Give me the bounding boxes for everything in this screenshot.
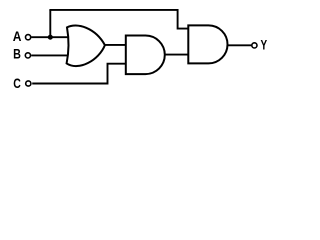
terminal Y (252, 43, 257, 48)
svg-text:C: C (13, 76, 21, 92)
terminal A (26, 35, 31, 40)
AND gate U2 (middle) (126, 36, 165, 75)
svg-text:Y: Y (261, 37, 268, 53)
svg-text:B: B (13, 46, 21, 62)
wire B input (31, 54, 68, 56)
OR gate U1 (67, 25, 105, 66)
terminal C (26, 81, 31, 86)
wire C input (32, 64, 126, 84)
junction node on A wire (48, 35, 53, 40)
wire down to right AND top input (178, 9, 189, 29)
wire A input (31, 36, 68, 38)
wire OR output to middle AND (105, 44, 127, 46)
AND gate U3 (right) (188, 25, 227, 63)
terminal B (25, 53, 30, 58)
wire right AND output to Y (228, 44, 252, 46)
wire top horizontal (49, 9, 177, 11)
svg-text:A: A (13, 28, 22, 44)
wire A branch vertical up (49, 10, 51, 37)
wire middle AND output to right AND bottom input (165, 54, 189, 56)
